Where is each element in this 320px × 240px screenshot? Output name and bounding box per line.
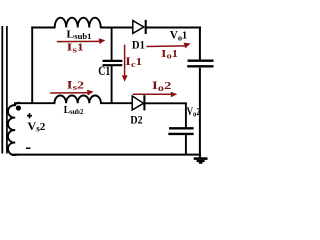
wire: top wire left segment xyxy=(31,27,55,29)
secondary winding Vs2 coil xyxy=(8,103,20,155)
inductor L2 xyxy=(55,95,101,103)
svg-text:D1: D1 xyxy=(132,40,145,52)
output capacitor Co1 xyxy=(187,61,213,67)
wire: right vertical wire lower xyxy=(199,68,201,158)
wire: middle wire second segment xyxy=(100,102,133,104)
wire: left vertical wire xyxy=(31,26,33,103)
svg-text:Lsub2: Lsub2 xyxy=(64,105,84,116)
wire: C1 branch lower stem xyxy=(111,66,113,103)
plus sign xyxy=(27,113,32,118)
output capacitor Co2 xyxy=(168,128,193,134)
diode D1 xyxy=(133,20,146,34)
svg-text:Is1: Is1 xyxy=(67,42,84,55)
wire: middle wire right segment xyxy=(144,102,186,104)
svg-text:Io1: Io1 xyxy=(161,48,178,61)
svg-text:D2: D2 xyxy=(130,115,142,127)
svg-text:Is2: Is2 xyxy=(67,79,84,92)
winding polarity dot xyxy=(16,105,21,110)
wire: top wire right segment xyxy=(146,27,201,29)
svg-text:Vo2: Vo2 xyxy=(187,106,201,119)
wire: Vo2 branch lower stem xyxy=(185,135,187,154)
svg-text:Io2: Io2 xyxy=(152,80,172,93)
transformer core line right xyxy=(6,26,8,154)
current arrow Io1 xyxy=(146,43,190,49)
current arrow Is1 xyxy=(57,38,106,44)
current arrow Is2 xyxy=(50,90,93,96)
ground xyxy=(194,159,208,163)
minus sign xyxy=(26,147,31,149)
wire: middle wire left segment xyxy=(14,102,55,104)
diode D2 xyxy=(132,95,144,110)
wire: right vertical wire upper xyxy=(199,26,201,60)
svg-text:C1: C1 xyxy=(98,63,110,78)
current arrow Ic1 xyxy=(122,45,128,82)
inductor L1 xyxy=(55,18,101,28)
wire: Vo2 branch upper stem xyxy=(185,102,187,127)
wire: top wire middle segment xyxy=(100,27,134,29)
wire: C1 branch upper stem xyxy=(111,27,113,60)
transformer core line left xyxy=(1,26,3,154)
current arrow Io2 xyxy=(133,92,178,98)
capacitor C1 xyxy=(103,61,123,65)
svg-text:Vo1: Vo1 xyxy=(170,30,188,43)
wire: bottom wire xyxy=(12,154,201,156)
